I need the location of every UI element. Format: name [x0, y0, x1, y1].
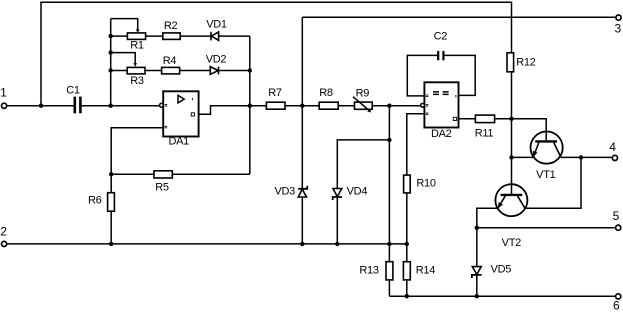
svg-text:DA1: DA1 — [168, 136, 189, 148]
svg-text:R1: R1 — [130, 40, 144, 52]
svg-text:VD2: VD2 — [206, 53, 227, 65]
svg-text:R10: R10 — [416, 178, 435, 190]
svg-text:C2: C2 — [434, 31, 448, 43]
svg-text:R14: R14 — [416, 264, 435, 276]
svg-text:R5: R5 — [155, 182, 169, 194]
svg-text:4: 4 — [609, 140, 616, 154]
svg-text:R12: R12 — [516, 56, 535, 68]
svg-text:5: 5 — [613, 209, 620, 223]
svg-text:R9: R9 — [356, 88, 370, 100]
svg-text:VD1: VD1 — [206, 19, 227, 31]
svg-text:R11: R11 — [475, 127, 494, 139]
svg-text:R6: R6 — [88, 195, 102, 207]
svg-text:VT2: VT2 — [502, 237, 521, 249]
svg-text:R8: R8 — [319, 87, 333, 99]
svg-text:3: 3 — [615, 22, 622, 36]
svg-text:R7: R7 — [268, 87, 282, 99]
svg-text:R3: R3 — [130, 75, 144, 87]
svg-text:R4: R4 — [163, 55, 177, 67]
svg-text:R2: R2 — [164, 20, 178, 32]
svg-text:6: 6 — [613, 299, 620, 313]
svg-text:VD4: VD4 — [347, 186, 368, 198]
svg-text:DA2: DA2 — [431, 128, 452, 140]
svg-text:VT1: VT1 — [536, 169, 555, 181]
svg-text:VD5: VD5 — [491, 263, 512, 275]
svg-text:2: 2 — [0, 225, 7, 239]
svg-text:R13: R13 — [359, 264, 378, 276]
svg-text:1: 1 — [0, 85, 7, 99]
svg-text:VD3: VD3 — [274, 186, 295, 198]
svg-text:C1: C1 — [66, 85, 80, 97]
